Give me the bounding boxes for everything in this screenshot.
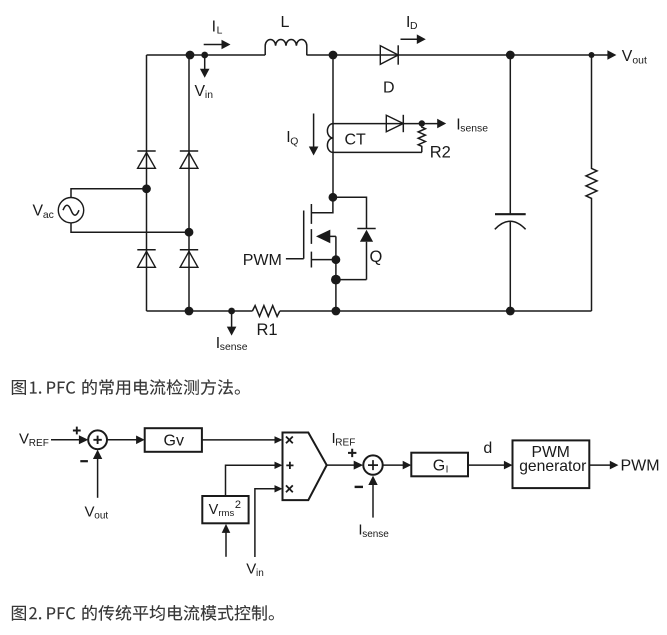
wire — [383, 464, 403, 466]
svg-text:d: d — [483, 440, 492, 457]
svg-text:V: V — [33, 203, 44, 220]
plus sign — [348, 449, 356, 457]
switch branch vertical — [332, 55, 334, 197]
summing junction U2 — [363, 455, 382, 474]
inductor L — [265, 39, 307, 55]
svg-text:2: 2 — [235, 499, 241, 511]
source Vac — [71, 189, 189, 232]
caption figure 1 — [12, 379, 240, 395]
arrow Vout — [607, 50, 616, 60]
svg-text:sense: sense — [220, 342, 248, 353]
svg-text:V: V — [246, 561, 256, 578]
svg-text:REF: REF — [335, 437, 355, 448]
arrow IL — [204, 44, 223, 46]
bridge diode bottom-left — [137, 249, 155, 251]
node Q source/body — [332, 255, 341, 264]
svg-text:PWM: PWM — [243, 252, 282, 269]
wire Vrms to multiplier — [226, 465, 275, 496]
bridge right leg wires — [188, 55, 190, 311]
svg-text:L: L — [281, 14, 290, 31]
svg-text:sense: sense — [362, 529, 389, 540]
transistor Q (MOSFET) — [311, 197, 333, 212]
svg-text:R2: R2 — [430, 144, 451, 162]
node body-diode bottom — [331, 275, 341, 285]
node Vin tap — [201, 52, 208, 59]
svg-text:L: L — [217, 26, 223, 37]
svg-text:in: in — [205, 90, 213, 101]
svg-text:rms: rms — [218, 508, 234, 519]
svg-text:V: V — [622, 48, 633, 65]
svg-text:R1: R1 — [257, 321, 278, 339]
wire — [202, 439, 275, 441]
svg-text:V: V — [19, 431, 29, 448]
CT winding — [327, 124, 333, 153]
bridge left leg wires — [146, 55, 148, 311]
diode D — [380, 46, 398, 65]
wire — [51, 439, 80, 441]
node Q drain — [329, 193, 338, 202]
svg-text:I: I — [446, 465, 449, 476]
arrow Isense CT — [437, 119, 446, 129]
svg-text:CT: CT — [345, 132, 367, 149]
wire top rail left — [147, 54, 266, 56]
svg-text:out: out — [632, 55, 647, 66]
CT secondary top wire — [333, 123, 438, 125]
wire multiplier out — [327, 464, 356, 466]
wire top rail mid — [307, 54, 609, 56]
arrow Isense bottom — [231, 313, 233, 328]
wire with d label — [468, 464, 505, 466]
arrow into Vrms — [225, 531, 227, 557]
svg-text:I: I — [212, 19, 216, 36]
node cap top — [506, 51, 515, 60]
caption figure 2 — [12, 605, 274, 621]
resistor R1 — [147, 306, 280, 317]
bridge diode bottom-right — [180, 249, 198, 251]
resistor R2 — [418, 124, 425, 153]
minus sign — [355, 486, 363, 488]
node Vac- — [185, 228, 194, 237]
block Gi — [411, 453, 468, 477]
svg-text:in: in — [256, 568, 264, 579]
svg-text:generator: generator — [519, 458, 586, 475]
wire PWM out — [589, 464, 610, 466]
minus sign — [80, 460, 88, 462]
block Vrms^2 — [202, 496, 248, 523]
arrow Vout feedback — [97, 458, 99, 498]
node bottom bridge — [185, 307, 194, 316]
wire Vin to multiplier — [255, 489, 275, 557]
CT secondary bottom wire — [333, 151, 422, 153]
arrow IQ — [313, 114, 315, 148]
summing junction U1 — [88, 430, 107, 449]
load resistor — [586, 55, 597, 311]
node R2 top — [419, 120, 425, 126]
svg-text:Q: Q — [290, 136, 298, 147]
svg-text:D: D — [383, 79, 395, 96]
svg-text:D: D — [410, 21, 418, 32]
bridge diode top-left — [137, 150, 155, 152]
wire bottom rail right — [280, 310, 592, 312]
block Gv — [145, 428, 202, 452]
svg-text:REF: REF — [29, 438, 49, 449]
svg-text:out: out — [94, 511, 108, 522]
node bottom Isense tap — [228, 308, 235, 315]
arrow Vin — [204, 58, 206, 70]
multiplier block — [283, 433, 327, 501]
svg-text:Q: Q — [370, 248, 383, 266]
block PWM generator — [513, 440, 590, 488]
body diode of Q — [333, 197, 367, 279]
CT diode — [386, 115, 403, 132]
svg-text:ac: ac — [43, 210, 54, 221]
svg-text:Gv: Gv — [164, 433, 184, 450]
plus sign — [73, 427, 81, 435]
node bottom Q source — [332, 307, 341, 316]
node load top — [589, 52, 595, 58]
svg-text:V: V — [195, 83, 206, 100]
node L-D-CT junction — [329, 51, 338, 60]
node Vac+ — [142, 184, 151, 193]
svg-text:PWM: PWM — [621, 458, 660, 475]
svg-text:V: V — [85, 503, 95, 520]
bridge diode top-right — [180, 150, 198, 152]
node rectifier-to-top-rail — [186, 51, 195, 60]
arrow Isense into U2 — [372, 484, 374, 518]
node bottom cap — [506, 307, 515, 316]
capacitor C — [509, 55, 511, 214]
wire — [107, 439, 137, 441]
svg-text:sense: sense — [460, 124, 488, 135]
arrow ID — [401, 38, 418, 40]
svg-text:G: G — [433, 457, 445, 474]
svg-text:V: V — [209, 502, 219, 518]
